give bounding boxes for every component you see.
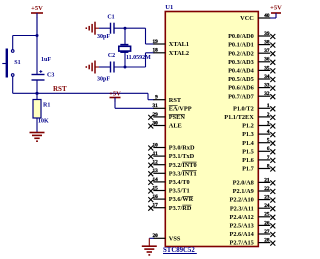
wire VCC [269, 17, 276, 19]
svg-text:27: 27 [264, 229, 270, 235]
label 1uF [41, 57, 51, 63]
wire +5V to node [36, 17, 38, 75]
svg-text:10K: 10K [38, 119, 49, 125]
wire VSS to ground [149, 238, 154, 246]
pin 38 P0.1/AD1 [228, 40, 275, 49]
svg-text:VCC: VCC [240, 15, 254, 22]
svg-text:9: 9 [155, 95, 158, 101]
pin 16 P3.6/WR [148, 194, 193, 203]
svg-text:P3.1/TxD: P3.1/TxD [169, 153, 195, 160]
pin 9 RST [153, 95, 182, 104]
label C3 [47, 73, 54, 79]
label 11.0592M [126, 55, 151, 61]
label 10K [38, 119, 49, 125]
node junction button-top [36, 34, 39, 37]
label 30pF (C2) [97, 77, 110, 83]
label 30pF (C1) [97, 34, 110, 40]
svg-text:14: 14 [153, 177, 159, 183]
pin 25 P2.4/A12 [229, 212, 275, 221]
svg-text:S1: S1 [14, 60, 20, 66]
svg-text:P2.0/A8: P2.0/A8 [233, 180, 254, 187]
pin 21 P2.0/A8 [233, 177, 276, 186]
svg-text:26: 26 [264, 220, 270, 226]
svg-text:P0.4/AD4: P0.4/AD4 [228, 68, 255, 75]
pin 13 P3.3/INT1 [148, 168, 196, 177]
node RST junction [35, 92, 38, 95]
pin 26 P2.5/A13 [229, 220, 275, 229]
svg-text:4: 4 [267, 129, 270, 135]
pin 4 P1.3 [242, 129, 275, 138]
svg-text:P1.5: P1.5 [242, 148, 254, 155]
svg-text:XTAL2: XTAL2 [169, 50, 189, 57]
pin 5 P1.4 [242, 138, 275, 147]
svg-text:37: 37 [264, 48, 270, 54]
svg-text:+5V: +5V [109, 91, 121, 98]
svg-text:P3.0/RxD: P3.0/RxD [169, 145, 195, 152]
svg-text:1uF: 1uF [41, 57, 51, 63]
svg-text:P2.6/A14: P2.6/A14 [229, 231, 254, 238]
pin 27 P2.6/A14 [229, 229, 275, 238]
svg-text:P2.4/A12: P2.4/A12 [229, 214, 253, 221]
power +5V (EA/VPP) [109, 91, 121, 109]
svg-text:P2.7/A15: P2.7/A15 [229, 240, 253, 247]
svg-text:P0.6/AD6: P0.6/AD6 [228, 85, 254, 92]
svg-text:40: 40 [264, 13, 270, 19]
label R1 [43, 103, 50, 109]
svg-text:1: 1 [267, 103, 270, 109]
pin 24 P2.3/A11 [230, 203, 275, 212]
wire button top branch [13, 36, 37, 50]
svg-text:39: 39 [264, 31, 270, 37]
pin 14 P3.4/T0 [148, 177, 189, 186]
designator U1 [165, 4, 173, 11]
svg-text:5: 5 [267, 138, 270, 144]
pin 23 P2.2/A10 [229, 195, 275, 204]
net label RST [53, 85, 67, 93]
pin 33 P0.6/AD6 [228, 83, 275, 92]
wire R1 to ground [36, 118, 38, 133]
svg-text:30: 30 [153, 120, 159, 126]
svg-text:P3.2/INT0: P3.2/INT0 [169, 162, 197, 169]
svg-text:R1: R1 [43, 103, 50, 109]
pin 36 P0.3/AD3 [228, 57, 275, 66]
svg-text:P1.0/T2: P1.0/T2 [233, 105, 254, 112]
svg-text:P0.1/AD1: P0.1/AD1 [228, 42, 254, 49]
svg-text:RST: RST [169, 97, 182, 104]
svg-text:30pF: 30pF [97, 34, 110, 40]
pin 11 P3.1/TxD [148, 151, 194, 160]
wire C3 to RST node [36, 80, 38, 100]
pin 28 P2.7/A15 [229, 238, 275, 247]
svg-text:C3: C3 [47, 73, 54, 79]
IC U1 STC89C52 body [165, 12, 258, 247]
svg-text:P0.3/AD3: P0.3/AD3 [228, 59, 254, 66]
svg-text:P1.1/T2EX: P1.1/T2EX [224, 114, 254, 121]
svg-text:19: 19 [153, 39, 159, 45]
svg-text:18: 18 [153, 48, 159, 54]
svg-text:11.0592M: 11.0592M [126, 55, 151, 61]
wire gnd-C1 [95, 27, 110, 29]
svg-text:P1.2: P1.2 [242, 123, 254, 130]
svg-text:P3.6/WR: P3.6/WR [169, 196, 194, 203]
svg-text:8: 8 [267, 163, 270, 169]
pin 3 P1.2 [242, 120, 275, 129]
svg-text:PSEN: PSEN [169, 114, 186, 121]
svg-text:36: 36 [264, 57, 270, 63]
capacitor C1 [111, 23, 115, 34]
wire RST to IC [37, 93, 154, 99]
resistor R1 [33, 100, 41, 119]
svg-text:17: 17 [153, 203, 159, 209]
svg-text:29: 29 [153, 112, 159, 118]
pin 22 P2.1/A9 [233, 186, 276, 195]
svg-text:RST: RST [53, 85, 67, 93]
wire crystal top [124, 28, 126, 44]
pin 18 XTAL2 [153, 48, 189, 57]
svg-text:P1.3: P1.3 [242, 131, 254, 138]
pin 7 P1.6 [242, 155, 275, 164]
label S1 [14, 60, 20, 66]
pin 40 VCC [240, 13, 270, 22]
pin 20 VSS [153, 233, 181, 242]
pin 10 P3.0/RxD [148, 142, 195, 151]
svg-text:16: 16 [153, 194, 159, 200]
pin 31 EA/VPP [153, 103, 192, 112]
wire C1 to XTAL1 net [114, 27, 146, 29]
power +5V (VCC) [270, 5, 282, 19]
pin 35 P0.4/AD4 [228, 65, 275, 74]
svg-text:P0.5/AD5: P0.5/AD5 [228, 76, 254, 83]
label C1 [107, 14, 114, 20]
svg-text:ALE: ALE [169, 123, 182, 130]
crystal Y1 11.0592M [119, 45, 131, 53]
svg-text:P0.2/AD2: P0.2/AD2 [228, 50, 254, 57]
pin 1 P1.0/T2 [233, 103, 275, 112]
wire crystal bottom [124, 52, 126, 67]
svg-text:11: 11 [153, 151, 158, 157]
wire C2 to XTAL2 net [114, 66, 146, 68]
svg-text:6: 6 [267, 146, 270, 152]
svg-text:28: 28 [264, 238, 270, 244]
pushbutton S1 [2, 49, 14, 78]
svg-text:13: 13 [153, 168, 159, 174]
pin 19 XTAL1 [153, 39, 189, 48]
power +5V (reset section) [31, 5, 43, 38]
ground (C1) [86, 22, 95, 35]
label C2 [108, 53, 115, 59]
svg-text:P1.7: P1.7 [242, 166, 254, 173]
svg-text:P3.7/RD: P3.7/RD [169, 205, 192, 212]
svg-text:32: 32 [264, 91, 270, 97]
svg-text:34: 34 [264, 74, 270, 80]
node crystal top [124, 27, 127, 30]
pin 30 ALE [148, 120, 181, 129]
svg-text:VSS: VSS [169, 235, 181, 242]
wire XTAL2 rise [145, 53, 147, 67]
svg-text:P3.4/T0: P3.4/T0 [169, 179, 190, 186]
svg-text:7: 7 [267, 155, 270, 161]
pin 29 PSEN [148, 112, 185, 121]
wire XTAL2 stub [146, 52, 155, 54]
svg-text:P2.3/A11: P2.3/A11 [230, 205, 254, 212]
wire EA/VPP [115, 107, 154, 109]
svg-text:C1: C1 [107, 14, 114, 20]
svg-text:15: 15 [153, 185, 159, 191]
node crystal bottom [124, 66, 127, 69]
svg-text:P1.4: P1.4 [242, 140, 255, 147]
pin 34 P0.5/AD5 [228, 74, 275, 83]
svg-text:12: 12 [153, 160, 159, 166]
wire button bottom [13, 76, 37, 93]
pin 37 P0.2/AD2 [228, 48, 275, 57]
svg-text:P1.6: P1.6 [242, 157, 254, 164]
pin 15 P3.5/T1 [148, 185, 189, 194]
ground (C2) [86, 61, 95, 74]
svg-text:23: 23 [264, 195, 270, 201]
ground (VSS) [142, 246, 157, 255]
capacitor C2 [111, 62, 115, 73]
pin 12 P3.2/INT0 [148, 160, 196, 169]
pin 6 P1.5 [242, 146, 275, 155]
svg-text:30pF: 30pF [97, 77, 110, 83]
svg-text:EA/VPP: EA/VPP [169, 105, 192, 112]
svg-text:31: 31 [153, 103, 159, 109]
ground (reset) [30, 133, 45, 142]
svg-text:P3.3/INT1: P3.3/INT1 [169, 170, 197, 177]
wire gnd-C2 [95, 66, 110, 68]
svg-text:+5V: +5V [270, 5, 282, 12]
svg-text:P0.7/AD7: P0.7/AD7 [228, 93, 254, 100]
pin 2 P1.1/T2EX [224, 112, 275, 121]
svg-text:10: 10 [153, 142, 159, 148]
svg-text:P2.2/A10: P2.2/A10 [229, 197, 253, 204]
svg-text:P0.0/AD0: P0.0/AD0 [228, 33, 254, 40]
pin 8 P1.7 [242, 163, 275, 172]
svg-text:35: 35 [264, 65, 270, 71]
capacitor C3 [32, 70, 45, 80]
svg-text:21: 21 [264, 177, 270, 183]
svg-text:3: 3 [267, 120, 270, 126]
svg-text:25: 25 [264, 212, 270, 218]
svg-text:P3.5/T1: P3.5/T1 [169, 188, 190, 195]
svg-text:XTAL1: XTAL1 [169, 41, 189, 48]
svg-text:U1: U1 [165, 4, 173, 11]
svg-text:+5V: +5V [31, 5, 43, 12]
svg-text:33: 33 [264, 83, 270, 89]
svg-text:2: 2 [267, 112, 270, 118]
pin 32 P0.7/AD7 [228, 91, 275, 100]
svg-text:24: 24 [264, 203, 270, 209]
svg-text:P2.1/A9: P2.1/A9 [233, 188, 254, 195]
svg-text:38: 38 [264, 40, 270, 46]
part name STC89C52 [163, 247, 197, 254]
wire XTAL1 drop [146, 28, 155, 44]
pin 39 P0.0/AD0 [228, 31, 275, 40]
svg-text:C2: C2 [108, 53, 115, 59]
svg-text:22: 22 [264, 186, 270, 192]
svg-text:P2.5/A13: P2.5/A13 [229, 223, 253, 230]
pin 17 P3.7/RD [148, 203, 192, 212]
